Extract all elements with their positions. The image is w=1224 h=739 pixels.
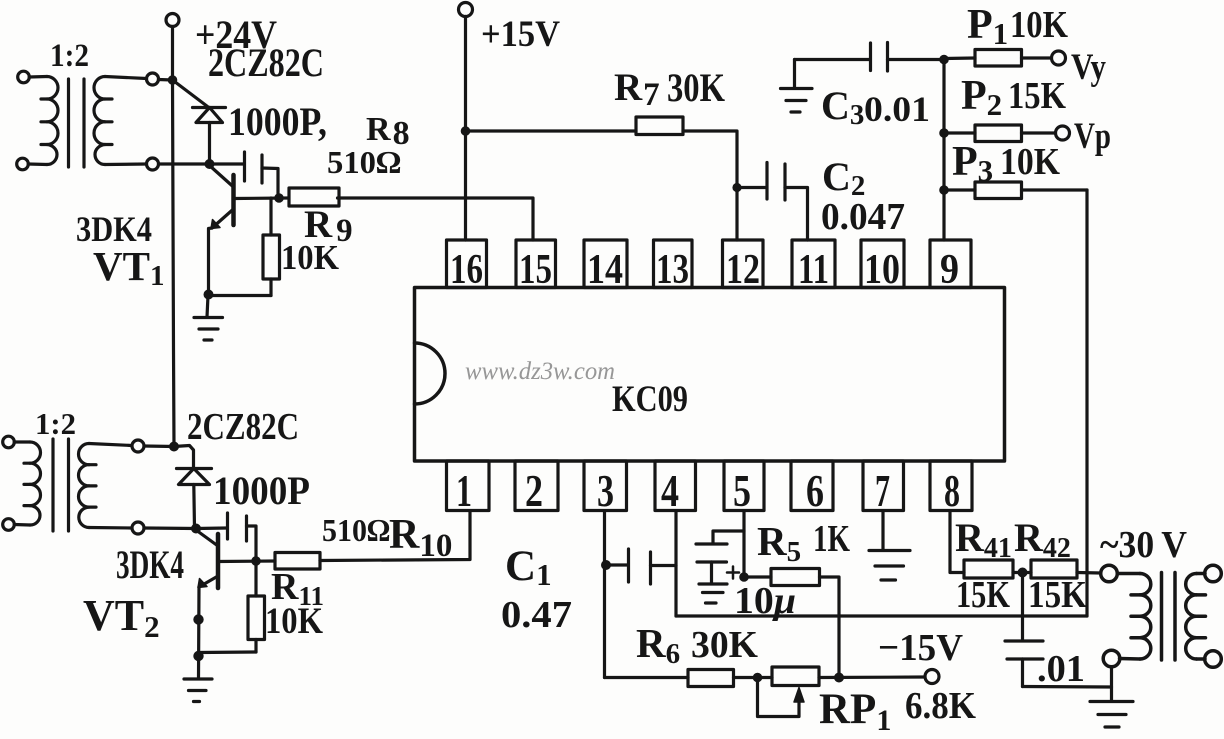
svg-text:3DK4: 3DK4	[116, 542, 184, 587]
pin 10	[861, 240, 904, 293]
wire pin8 stem down	[950, 511, 964, 573]
svg-text:4: 4	[661, 465, 679, 516]
svg-text:2: 2	[525, 465, 543, 516]
ground (pin7)	[869, 551, 910, 581]
feedback rail wire (pin4 to P3)	[676, 614, 1087, 617]
junction dot bus/T2 top	[171, 443, 178, 450]
svg-text:7: 7	[875, 465, 890, 516]
svg-text:5: 5	[733, 465, 751, 516]
wire R6 to RP1	[734, 676, 773, 679]
plus sign (10u polarity)	[727, 567, 739, 579]
junction dot +15V/R7	[462, 128, 468, 134]
transistor VT1 3DK4	[210, 166, 289, 229]
IC U1 KC09 body	[415, 288, 1005, 462]
svg-text:2CZ82C: 2CZ82C	[187, 406, 299, 448]
junction dot pin12/C2	[734, 185, 740, 191]
diode D2 2CZ82C	[174, 446, 212, 529]
node: T2 secondary top terminal	[132, 440, 144, 452]
capacitor 10u electrolytic	[696, 531, 744, 584]
svg-text:1:2: 1:2	[35, 406, 76, 441]
svg-text:10K: 10K	[265, 601, 323, 642]
resistor R9 10K	[263, 198, 280, 296]
pin 5	[724, 461, 764, 516]
svg-text:−15V: −15V	[878, 627, 964, 669]
wire RP1 to -15V terminal	[819, 675, 925, 679]
wire T1 top terminal to +24V bus	[159, 78, 173, 82]
svg-text:15K: 15K	[956, 574, 1010, 616]
wire R10 to pin1 riser	[320, 511, 470, 561]
svg-text:6.8K: 6.8K	[905, 685, 976, 727]
svg-text:0.01: 0.01	[864, 89, 930, 129]
wire R11 bottom to emitter	[199, 650, 257, 654]
ground (VT2 emitter)	[184, 679, 212, 702]
svg-text:30K: 30K	[667, 65, 725, 110]
node: T1 secondary top terminal	[147, 73, 159, 85]
capacitor .01	[1005, 573, 1043, 687]
wire R7 to pin12 riser	[683, 131, 737, 240]
svg-text:~30 V: ~30 V	[1100, 524, 1188, 566]
resistor R10 510ohm	[275, 553, 320, 570]
pin 16	[447, 240, 487, 293]
diode D1 2CZ82C	[173, 80, 226, 164]
svg-text:6: 6	[806, 465, 824, 516]
wire pin4 stem down to feedback rail	[674, 511, 677, 616]
pin 6	[791, 461, 833, 516]
junction dot P3 tap	[941, 187, 947, 193]
pin 8	[930, 461, 972, 516]
svg-text:16: 16	[450, 247, 483, 293]
svg-text:30K: 30K	[691, 624, 758, 666]
transformer T2 1:2 (bottom left)	[3, 436, 132, 531]
wire +15V down to pin16	[464, 17, 467, 241]
output terminal Vp	[1056, 126, 1070, 140]
+15V supply terminal	[459, 3, 473, 17]
capacitor 1000P (bottom)	[196, 513, 256, 561]
pin 12	[723, 240, 764, 293]
svg-text:0.47: 0.47	[501, 594, 572, 636]
junction dot R41/R42/.01	[1019, 569, 1026, 576]
svg-text:10K: 10K	[1010, 4, 1068, 46]
resistor R41 15K	[964, 560, 1013, 578]
pin 13	[654, 240, 693, 293]
svg-text:1000P: 1000P	[213, 468, 310, 513]
ground (C3 left)	[781, 60, 813, 113]
svg-text:.01: .01	[1037, 648, 1085, 690]
svg-text:510Ω: 510Ω	[327, 144, 401, 180]
junction dot C3/P1 node	[941, 56, 947, 62]
wire T1 bottom terminal to D1/VT1 node	[159, 162, 210, 165]
svg-text:Vy: Vy	[1071, 47, 1106, 88]
junction dot on emitter wire	[195, 616, 202, 623]
node: T1 secondary bottom terminal	[147, 158, 159, 170]
pin 4	[655, 461, 696, 516]
svg-text:1: 1	[456, 465, 472, 516]
-15V supply terminal	[925, 670, 939, 684]
wire T2 top terminal to bus junction	[144, 444, 174, 448]
wire C3 node vertical down to pin9	[942, 60, 945, 241]
svg-text:0.047: 0.047	[821, 196, 905, 238]
svg-text:1K: 1K	[813, 518, 850, 560]
capacitor C2 0.047	[737, 163, 808, 241]
pin 1	[447, 461, 490, 516]
pin 9	[930, 240, 971, 293]
wire R42 to ~30V terminal	[1077, 571, 1101, 575]
junction dot D2 anode / T2 bottom / VT2 collector	[193, 525, 200, 532]
wire .01 to transformer ground	[1023, 685, 1112, 689]
svg-text:11: 11	[798, 247, 829, 293]
+24V supply terminal	[166, 14, 179, 27]
ground (10u)	[699, 584, 727, 603]
svg-text:10K: 10K	[1000, 141, 1060, 183]
resistor R7 30K	[636, 117, 683, 135]
wire emitter to R9 bottom	[209, 294, 272, 297]
wire VT2 emitter down	[197, 587, 201, 678]
output terminal Vy	[1052, 51, 1066, 65]
junction dot base/R8/R9/cap	[276, 195, 282, 201]
svg-text:8: 8	[944, 465, 960, 516]
svg-text:1:2: 1:2	[50, 38, 89, 74]
svg-text:KC09: KC09	[612, 379, 688, 420]
pin 7	[863, 461, 904, 516]
svg-text:15K: 15K	[1028, 574, 1087, 616]
svg-text:510Ω: 510Ω	[322, 512, 390, 548]
resistor R42 15K	[1031, 560, 1077, 578]
capacitor C1 0.47	[606, 549, 676, 584]
transistor VT2 3DK4	[196, 530, 275, 588]
IC U1 notch	[415, 343, 445, 404]
junction dot +24V/T1 top	[169, 77, 175, 83]
wire pin7 stem down	[881, 511, 884, 550]
capacitor 1000P (top)	[210, 152, 279, 198]
potentiometer P2 15K	[944, 125, 1056, 142]
svg-text:10: 10	[864, 247, 900, 293]
junction dot P2 tap	[941, 130, 947, 136]
wire T3 bottom terminal to ground	[1110, 667, 1113, 701]
junction dot pin5/R5	[741, 574, 747, 580]
svg-text:3: 3	[597, 465, 614, 516]
pin 2	[515, 461, 558, 516]
wire R8 to pin15 riser	[338, 198, 534, 240]
wire R6 rail (pin3 to -15V)	[605, 676, 689, 679]
node: T2 secondary bottom terminal	[132, 522, 144, 534]
svg-text:+15V: +15V	[481, 14, 560, 55]
wire pin5 stem down	[742, 511, 745, 577]
svg-text:1000P,: 1000P,	[228, 99, 327, 144]
svg-text:15K: 15K	[1008, 75, 1066, 117]
svg-text:12: 12	[726, 247, 760, 293]
ground (T3)	[1090, 702, 1133, 728]
junction dot R5/-15V rail	[836, 674, 843, 681]
svg-text:13: 13	[656, 247, 689, 293]
potentiometer P1 10K	[944, 50, 1052, 67]
svg-text:15: 15	[519, 247, 552, 293]
resistor R5 1K	[744, 569, 839, 678]
junction dot emitter/R9/ground	[205, 291, 212, 298]
ground (VT1 emitter)	[194, 296, 223, 341]
svg-text:9: 9	[940, 247, 959, 293]
wire pin3 stem down	[603, 511, 606, 678]
junction dot pin3/C1	[603, 562, 610, 569]
junction dot D1 anode / T1 bottom / VT1 collector	[206, 161, 213, 168]
pin 15	[516, 240, 556, 293]
capacitor C3 0.01	[795, 43, 945, 72]
pin 3	[584, 461, 627, 516]
wire +24V bus vertical down to T2	[173, 27, 175, 447]
junction dot emitter/R11	[195, 652, 202, 659]
potentiometer RP1 6.8K	[758, 667, 820, 717]
potentiometer P3 10K	[944, 182, 1087, 199]
wire P3 feedback vertical	[1085, 190, 1088, 616]
svg-text:10K: 10K	[281, 238, 339, 277]
svg-text:14: 14	[587, 247, 623, 293]
svg-text:Vp: Vp	[1074, 116, 1111, 157]
resistor R6 30K	[688, 670, 734, 687]
svg-text:2CZ82C: 2CZ82C	[208, 40, 324, 85]
transformer T1 1:2 (top left)	[17, 71, 147, 170]
wire +15V node to R7	[466, 129, 637, 132]
resistor R11 10K	[248, 561, 265, 652]
wire R41 to R42	[1013, 571, 1031, 574]
pin 11	[792, 240, 835, 293]
transformer T3 (right, ~30V)	[1101, 565, 1222, 667]
pin 14	[584, 240, 627, 293]
wire VT1 emitter down	[209, 228, 213, 296]
wire T2 bottom terminal to D2/VT2 node	[144, 526, 196, 530]
resistor R8 510ohm	[289, 188, 339, 206]
svg-text:www.dz3w.com: www.dz3w.com	[465, 358, 615, 385]
junction dot base/R10/R11/cap	[253, 558, 259, 564]
junction dot R6/RP1 wiper tie	[754, 674, 760, 680]
